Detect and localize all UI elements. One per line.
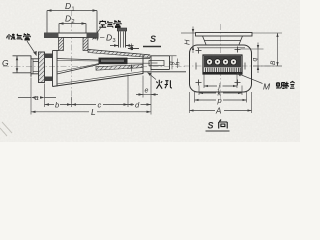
mixing tube hatched walls bbox=[88, 50, 150, 58]
air pipe walls bbox=[59, 38, 64, 51]
left face bbox=[53, 51, 58, 87]
管 bbox=[114, 20, 121, 27]
dimension p bbox=[195, 99, 247, 101]
S view horizontal centerline bbox=[184, 65, 283, 67]
dimension d bbox=[128, 103, 151, 105]
dimension G bbox=[13, 56, 32, 73]
nozzle bore lines bbox=[128, 58, 151, 63]
bolt cross bottom-right bbox=[235, 80, 241, 86]
gas nozzle cone inside bbox=[57, 59, 99, 75]
centerline edge ticks bbox=[196, 63, 245, 70]
dimension b bbox=[45, 103, 72, 105]
孔 bbox=[165, 80, 172, 88]
leader line for 煤气管 bbox=[27, 41, 37, 56]
bolt cross top-right bbox=[235, 47, 241, 53]
label 煤气管 (gas pipe) bbox=[7, 33, 31, 40]
dimension A bbox=[190, 109, 252, 111]
螺 bbox=[276, 82, 286, 88]
label 空气管 (air pipe) bbox=[99, 20, 121, 27]
栓 bbox=[285, 81, 295, 88]
top shoulder bbox=[53, 50, 59, 52]
fire holes bbox=[206, 59, 236, 65]
fire hole block bbox=[203, 55, 242, 74]
label 火孔 (fire hole) bbox=[156, 80, 172, 89]
dimension e bbox=[136, 93, 158, 95]
gas flange bbox=[39, 52, 53, 83]
fire hole bore bbox=[149, 61, 164, 66]
dimension c bbox=[72, 103, 129, 105]
top bar (pipe flange edge) bbox=[196, 33, 253, 37]
气 bbox=[17, 34, 22, 40]
extension line from tip bottom bbox=[143, 71, 186, 73]
mounting plate bbox=[190, 45, 252, 92]
cone bottom outer bbox=[53, 74, 144, 87]
extension lines bbox=[31, 72, 151, 115]
arrows for D3 bbox=[110, 44, 134, 46]
S view direction arrow bbox=[128, 34, 162, 50]
bolt cross bottom-left bbox=[196, 80, 202, 86]
air pipe vertical centerline bbox=[71, 10, 73, 100]
scan artifact bottom-left corner bbox=[0, 122, 12, 136]
气 bbox=[107, 21, 113, 28]
dimension D2 bbox=[59, 22, 86, 33]
cone top outer bbox=[88, 50, 150, 56]
dimension D1 bbox=[47, 9, 97, 32]
vertical hatch below holes bbox=[206, 68, 241, 72]
air pipe top flange bbox=[45, 33, 99, 38]
leader to M bolt label bbox=[237, 73, 263, 84]
leader line for 火孔 bbox=[148, 73, 157, 80]
dimension B (far right) bbox=[253, 33, 283, 66]
burner body outline bbox=[53, 50, 151, 87]
leader line for 空气管 bbox=[93, 28, 101, 40]
煤 bbox=[7, 34, 16, 40]
bolt bottom bbox=[45, 77, 53, 82]
火 bbox=[156, 80, 162, 89]
向 bbox=[219, 120, 228, 129]
nozzle tip bbox=[149, 56, 177, 70]
dimension a bbox=[18, 96, 56, 98]
dimension H (left of S view) bbox=[181, 27, 196, 54]
vertical dimension at nozzle (tube OD) bbox=[130, 44, 132, 72]
S view vertical centerline bbox=[220, 24, 222, 101]
S view bottom dimension extension lines bbox=[190, 75, 252, 114]
burner tile joint bbox=[143, 55, 151, 74]
scan grain overlay bbox=[0, 0, 1, 1]
reducer trapezoid bbox=[203, 36, 243, 45]
horizontal axis centerline bbox=[3, 66, 186, 68]
dimension L bbox=[31, 111, 151, 113]
空 bbox=[99, 20, 106, 27]
bolt cross top-left bbox=[196, 48, 202, 54]
dimension j bbox=[204, 85, 237, 87]
管 bbox=[24, 33, 31, 40]
gas pipe bbox=[31, 56, 40, 77]
dimension q (right of plate) bbox=[241, 43, 264, 74]
bolt top bbox=[45, 54, 53, 59]
dark nozzle strip bbox=[99, 58, 128, 65]
dimension k bbox=[199, 92, 242, 94]
inner bottom line bbox=[57, 72, 143, 85]
small tube 4-D3 bbox=[117, 28, 126, 48]
